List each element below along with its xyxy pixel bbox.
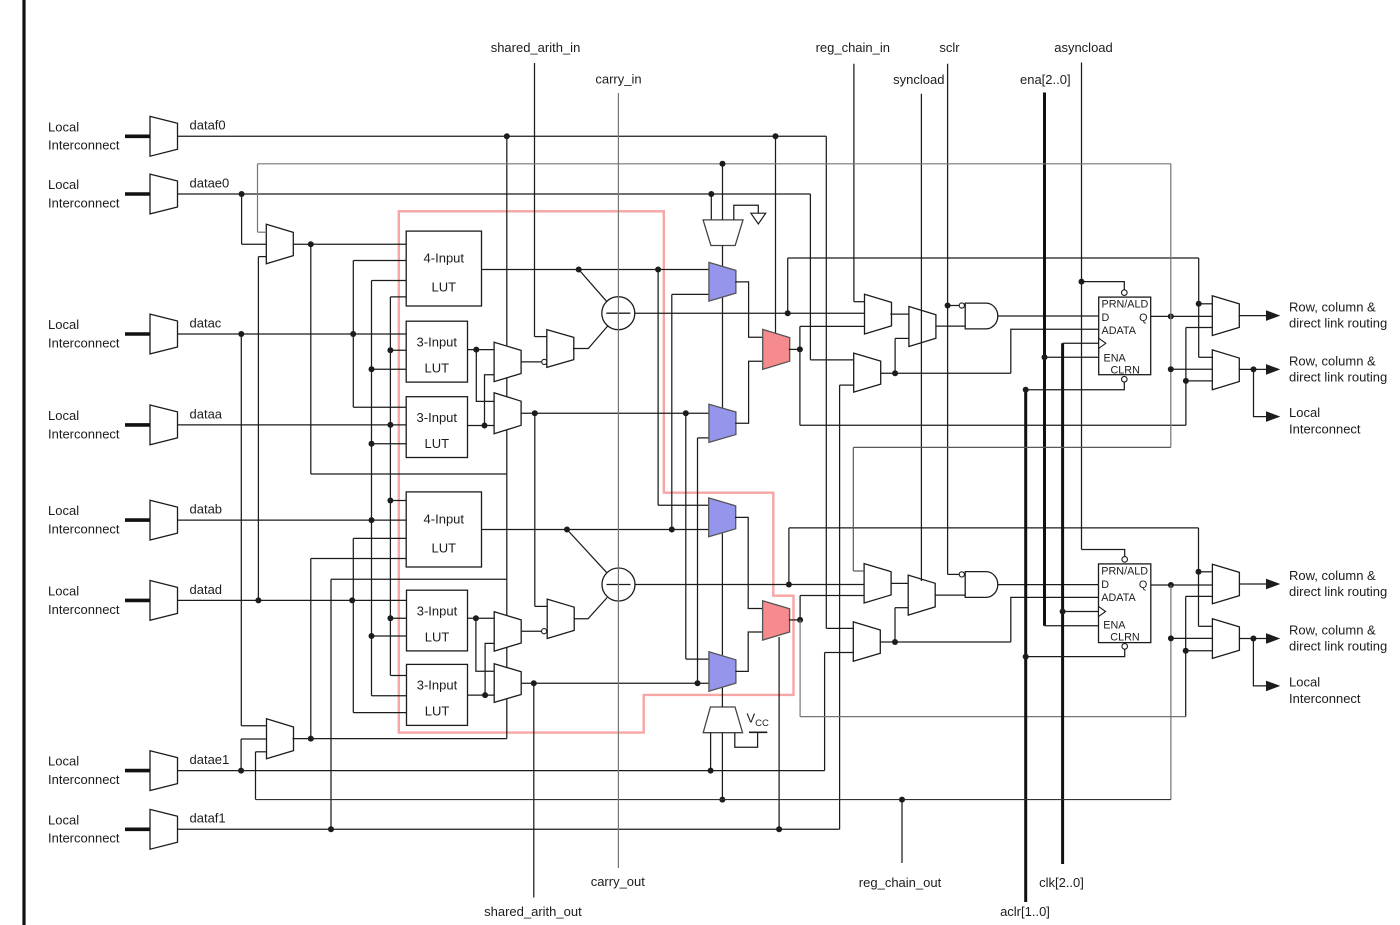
wire LUT input rail A upper	[352, 261, 354, 408]
node asyncload tap FF1	[1079, 279, 1085, 285]
wire adder1 out run to out muxes	[788, 257, 1199, 259]
FF1 PRN bubble	[1122, 290, 1128, 296]
wire out2 wire	[1239, 368, 1266, 370]
wire FF1 feedback left leg	[257, 164, 259, 232]
input buffer dataf1 (Local Interconnect)	[150, 809, 178, 849]
node red mux2 out junction	[797, 617, 803, 623]
input buffer datab (Local Interconnect)	[150, 500, 178, 540]
svg-text:Q: Q	[1139, 312, 1147, 324]
wire to out-mux3 in1	[1199, 571, 1213, 573]
mux datae0-select (top)	[266, 224, 293, 263]
svg-text:datab: datab	[190, 502, 223, 517]
wire datae1 up to mux I	[240, 739, 242, 771]
svg-text:Row, column &: Row, column &	[1289, 353, 1376, 368]
mux A (3-LUT combine, top)	[494, 342, 521, 381]
wire asyncload to FF2 PRN	[1082, 550, 1125, 557]
wire comb feedback rise (bottom)	[1185, 596, 1187, 716]
3-input LUT 3	[407, 590, 468, 651]
svg-text:clk[2..0]: clk[2..0]	[1039, 875, 1084, 890]
wire clk to FF2 clock	[1063, 611, 1099, 613]
svg-text:LUT: LUT	[432, 540, 457, 555]
node vcc pin / feedback junction	[719, 797, 725, 803]
svg-text:dataa: dataa	[190, 406, 223, 421]
wire rail A to 3-LUT4 in3	[353, 712, 406, 714]
node adder2 out tap	[786, 582, 792, 588]
wire feedback to e-select mux in2	[722, 164, 724, 220]
input buffer datae1 (Local Interconnect)	[150, 751, 178, 791]
bus aclr[1..0]	[1024, 390, 1027, 902]
wire FF1 Q output	[1151, 315, 1213, 317]
svg-text:LUT: LUT	[425, 704, 450, 719]
4-input LUT (bottom)	[406, 492, 481, 567]
adder 1 (top)	[602, 297, 635, 330]
svg-text:LUT: LUT	[425, 436, 450, 451]
wire FF1 feedback to mux F2	[852, 447, 854, 571]
wire dataf1	[178, 828, 840, 830]
wire carry chain carry_in to carry_out	[617, 93, 619, 868]
wire AND1 out to FF1 D	[998, 315, 1099, 317]
FF2 CLRN bubble	[1122, 644, 1128, 650]
arrow out2	[1266, 364, 1280, 375]
wire rail C to 4-LUT2 in1	[390, 500, 406, 502]
wire blue mux2 out to carry-select mux	[735, 361, 763, 423]
adder 2 (bottom)	[602, 568, 635, 601]
node ena tap FF1	[1042, 354, 1048, 360]
svg-text:direct link routing: direct link routing	[1289, 369, 1387, 384]
mux D2 (3-LUT combine, bottom)	[494, 612, 521, 651]
node Q1 feedback junction	[1168, 313, 1174, 319]
node datac tap	[238, 331, 244, 337]
wire 3-LUT3 output	[468, 617, 495, 619]
wire blue mux2 in2 stub	[698, 437, 709, 439]
wire ena to FF2 ENA	[1045, 625, 1099, 627]
wire lower select rail	[310, 559, 312, 739]
wire dataf0 to carry mux select	[775, 136, 777, 333]
wire FF2 feedback right leg	[1170, 585, 1172, 800]
wire to local interconnect arrow (bottom)	[1253, 639, 1266, 686]
node select mux out junction	[308, 241, 314, 247]
svg-text:4-Input: 4-Input	[424, 251, 465, 266]
svg-text:Interconnect: Interconnect	[1289, 691, 1361, 706]
svg-text:LUT: LUT	[425, 361, 450, 376]
wire dataf1 cross run	[331, 578, 507, 580]
4-input LUT (top)	[406, 231, 481, 306]
node 4LUT1 out / adder tap	[576, 267, 582, 273]
wire rail A to 4-LUT2 in3	[353, 537, 406, 539]
svg-text:asyncload: asyncload	[1054, 40, 1113, 55]
node 3LUT1 out tap	[473, 347, 479, 353]
svg-text:ENA: ENA	[1104, 353, 1127, 365]
wire red mux2 to sync mux stub	[799, 596, 801, 620]
wire out4 wire	[1239, 638, 1266, 640]
mux e-select (bottom, trapezoid up)	[703, 707, 742, 733]
node mux C2 out / cross tap	[695, 680, 701, 686]
wire clk to FF1 clock	[1063, 342, 1099, 344]
wire vcc mux pin to datae1	[710, 733, 712, 771]
node aclr end FF1	[1023, 387, 1029, 393]
svg-text:Interconnect: Interconnect	[48, 602, 120, 617]
svg-text:3-Input: 3-Input	[417, 678, 458, 693]
wire reg_chain_out line	[901, 800, 903, 863]
wire datad to top mux in3	[258, 256, 266, 258]
AND gate 1 (sclr gating, top)	[965, 303, 998, 329]
wire to inverter symbol	[734, 205, 759, 220]
svg-text:shared_arith_in: shared_arith_in	[491, 40, 581, 55]
wire to out-mux4 in1	[1199, 625, 1213, 627]
wire dataf0 vertical column	[506, 136, 508, 738]
wire to local interconnect arrow (top)	[1254, 369, 1267, 416]
node dataf1 tap	[328, 826, 334, 832]
wire select pass-through blue mux3 to mux4	[721, 533, 723, 655]
wire FF1 CLRN to aclr	[1026, 382, 1125, 390]
wire red mux1 out to sync mux F in3	[800, 325, 865, 327]
wire reg_chain_in to mux F in1	[854, 301, 865, 303]
node 3LUT2 out tap	[482, 423, 488, 429]
svg-text:Interconnect: Interconnect	[48, 831, 120, 846]
node out2 junction	[1251, 366, 1257, 372]
node 3LUT3 out tap	[473, 615, 479, 621]
wire comb feedback run (bottom)	[800, 716, 1186, 718]
wire datae0 to input-select mux	[241, 194, 243, 244]
wire mux F out to mux G	[890, 313, 909, 315]
wire to blue mux1 in2	[672, 293, 709, 295]
svg-text:ADATA: ADATA	[1102, 325, 1137, 337]
highlight outline (pink adder/LUT region)	[399, 211, 794, 732]
node red mux1 out junction	[797, 346, 803, 352]
wire mux A output	[521, 361, 541, 363]
wire dataf0 to reg-feedback mux H2 in1	[826, 627, 853, 629]
Vcc power symbol	[749, 731, 767, 733]
wire red mux2 output	[789, 619, 800, 621]
wire to out-mux3 in3	[1186, 595, 1213, 597]
svg-text:Q: Q	[1139, 579, 1147, 591]
svg-text:LUT: LUT	[432, 280, 457, 295]
wire dataf1 rise to LUT rail	[330, 579, 332, 829]
mux H (adata select, top)	[854, 353, 881, 392]
wire select-out cross connector	[311, 473, 507, 475]
node rail C tap dataa	[387, 422, 393, 428]
page left border	[22, 0, 25, 925]
wire FF1 feedback bottom run	[853, 446, 1171, 448]
wire LUT input rail A lower	[352, 538, 354, 712]
wire datac to 3-LUT1	[178, 333, 407, 335]
svg-text:carry_in: carry_in	[595, 71, 641, 86]
svg-text:ADATA: ADATA	[1101, 592, 1136, 604]
svg-text:Row, column &: Row, column &	[1289, 622, 1376, 637]
wire reg_chain_in drop	[853, 64, 855, 302]
wire datab to 4-LUT2	[178, 519, 407, 521]
input buffer dataf0 (Local Interconnect)	[150, 116, 178, 156]
node dataf1/select junction	[776, 826, 782, 832]
wire mux B out to adder 1	[573, 326, 608, 349]
wire mux I in3 drop	[255, 752, 257, 800]
wire rail B to 4-LUT1 in3	[372, 280, 407, 282]
wire comb feedback rise (top)	[1185, 328, 1187, 426]
node rail B tap 3LUT2	[369, 441, 375, 447]
wire adder2 out rise	[788, 528, 790, 585]
svg-text:Row, column &: Row, column &	[1289, 299, 1376, 314]
node feedback tap to e-select mux	[720, 161, 726, 167]
node mux H2 out tap	[892, 639, 898, 645]
svg-text:reg_chain_in: reg_chain_in	[816, 40, 890, 55]
bus ena[2..0]	[1043, 93, 1046, 626]
wire rail B to 3-LUT2 in3	[372, 443, 407, 445]
wire datae1 to mux I center input	[241, 738, 266, 740]
node feedback tap out-mux2	[1168, 366, 1174, 372]
svg-text:datac: datac	[190, 315, 222, 330]
wire 3LUT3 out jog to mux C2	[476, 618, 494, 671]
wire datac vertical to mux I	[240, 334, 242, 726]
AND1 input bubble	[959, 303, 964, 308]
wire ena to FF1 ENA	[1045, 356, 1099, 358]
wire 4LUT1 out cross to lower blue mux	[657, 270, 659, 506]
node dataf0/shared column tap	[504, 133, 510, 139]
wire to out-mux1 in3	[1186, 327, 1212, 329]
node feedback tap out-mux4	[1168, 635, 1174, 641]
wire datae0 mux center input	[242, 243, 267, 245]
node mux C out / cross tap	[683, 410, 689, 416]
3-input LUT 4	[407, 664, 468, 725]
svg-text:dataf0: dataf0	[190, 118, 226, 133]
svg-text:datad: datad	[190, 582, 223, 597]
wire datac to mux I in1	[241, 725, 266, 727]
wire rail B to 3-LUT3 in3	[372, 635, 407, 637]
node sclr tap AND1	[945, 303, 951, 309]
wire FF1 feedback top run	[258, 163, 1171, 165]
svg-text:3-Input: 3-Input	[417, 410, 458, 425]
node rail B tap 3LUT1	[369, 366, 375, 372]
wire to reg-feedback mux H in2	[840, 384, 854, 386]
wire dataa input stub (thick)	[125, 423, 150, 427]
svg-text:sclr: sclr	[939, 40, 960, 55]
wire out-mux feed drop (top)	[1198, 258, 1200, 357]
inverter bubble at mux B input	[542, 359, 547, 364]
wire red mux2 out to sync mux F2 in3	[800, 595, 864, 597]
wire to out-mux4 in3	[1186, 650, 1213, 652]
wire datae1 input stub (thick)	[125, 769, 150, 773]
mux datae1-select (bottom)	[267, 719, 294, 759]
wire 3LUT2 out jog to mux A	[485, 375, 495, 426]
FF1 clock triangle	[1099, 338, 1106, 348]
wire comb feedback run (top)	[800, 424, 1186, 426]
wire out3 wire	[1239, 583, 1266, 585]
mux out 2 (row/column, top)	[1212, 350, 1239, 390]
wire datab input stub (thick)	[125, 518, 150, 522]
node rail C tap 3LUT3	[387, 615, 393, 621]
wire out-mux feed drop (bottom)	[1198, 528, 1200, 626]
wire 3LUT1 out jog to mux C	[476, 350, 494, 402]
wire rail B to 3-LUT4 in2	[372, 695, 407, 697]
wire FF1 feedback right leg	[1170, 164, 1172, 448]
node Q2 feedback junction	[1168, 582, 1174, 588]
wire syncload line	[920, 94, 922, 581]
wire FF2 CLRN to aclr	[1026, 649, 1125, 657]
wire red mux2 loop vertical	[799, 620, 801, 717]
wire dataf1 feedback rise to mux H	[839, 385, 841, 829]
svg-text:aclr[1..0]: aclr[1..0]	[1000, 904, 1050, 919]
wire to blue mux3 in1	[658, 504, 709, 506]
node reg_chain_out tap	[899, 797, 905, 803]
wire shared_arith_in to mux B in1	[535, 336, 547, 338]
mux B (adder input, top)	[547, 330, 574, 368]
node out-mux3 feed tap	[1196, 569, 1202, 575]
wire rail C to 3-LUT4 in1	[390, 675, 406, 677]
svg-text:Local: Local	[48, 812, 79, 827]
wire 4-LUT1 output	[482, 269, 709, 271]
svg-text:ENA: ENA	[1103, 619, 1126, 631]
node dataf0/red-mux select tap	[773, 133, 779, 139]
wire adder2 out run to out muxes	[789, 527, 1199, 529]
wire AND2 out to FF2 D	[998, 584, 1099, 586]
FF1 CLRN bubble	[1122, 376, 1128, 382]
svg-text:Interconnect: Interconnect	[48, 426, 120, 441]
wire feedback to top mux in1	[258, 231, 267, 233]
wire mux H output run	[881, 372, 1011, 374]
wire to blue mux4 in1	[686, 658, 709, 660]
wire mux C2 output run	[522, 682, 709, 684]
wire dataf0 feedback drop	[825, 136, 827, 628]
inverter bubble at mux E2 input	[542, 629, 547, 634]
node aclr tap FF2	[1023, 654, 1029, 660]
svg-text:D: D	[1102, 312, 1110, 324]
wire datae1	[178, 770, 825, 772]
wire red mux1 output	[789, 348, 800, 350]
node comb feedback tap	[1183, 378, 1189, 384]
wire datae0 feedback drop	[809, 194, 811, 360]
svg-text:Interconnect: Interconnect	[48, 772, 120, 787]
wire mux C2 out cross to blue mux2	[697, 438, 699, 683]
node 3LUT4 out tap	[482, 692, 488, 698]
input buffer datae0 (Local Interconnect)	[150, 174, 178, 214]
inverter triangle symbol	[751, 213, 766, 224]
wire mux G out to AND gate	[936, 325, 965, 327]
wire out1 wire	[1239, 315, 1266, 317]
mux blue 4 (bottom LUT select)	[709, 652, 736, 692]
wire mux F2 out to mux G2	[891, 582, 909, 584]
wire FF2 Q output	[1151, 584, 1213, 586]
node datad/railA junction	[349, 597, 355, 603]
wire mux C output run	[521, 412, 709, 414]
node mux H out tap	[892, 370, 898, 376]
node rail B tap 3LUT3	[369, 633, 375, 639]
wire mux H out rise to mux G	[894, 338, 896, 373]
node datae1 tap	[238, 768, 244, 774]
svg-text:dataf1: dataf1	[190, 811, 226, 826]
input buffer datad (Local Interconnect)	[150, 581, 178, 621]
wire LUT input rail C	[389, 297, 391, 676]
svg-text:4-Input: 4-Input	[424, 511, 465, 526]
wire dataf0 input stub (thick)	[125, 135, 150, 139]
svg-text:Local: Local	[48, 408, 79, 423]
wire mux H2 out rise to mux G2	[894, 608, 896, 642]
wire e-select mux out to blue mux1	[722, 246, 724, 267]
AND gate 2 (sclr gating, bottom)	[965, 572, 998, 598]
node 4LUT2 out / cross tap	[669, 527, 675, 533]
node rail C tap 3LUT1	[387, 347, 393, 353]
svg-text:CLRN: CLRN	[1110, 631, 1139, 643]
wire to FF2 ADATA	[1011, 597, 1099, 642]
mux blue 2 (top LUT select)	[709, 404, 736, 442]
node rail C tap 4LUT2	[387, 498, 393, 504]
wire datad to 3-LUT3	[178, 599, 407, 601]
svg-text:D: D	[1101, 579, 1109, 591]
wire select-out vertical rail	[310, 244, 312, 474]
FF2 PRN bubble	[1122, 557, 1128, 563]
wire to out-mux4 in2	[1171, 637, 1213, 639]
wire to mux G in2	[895, 337, 909, 339]
wire 4LUT1 out to adder 1	[579, 270, 607, 302]
wire datae0 input stub (thick)	[125, 192, 150, 196]
svg-text:PRN/ALD: PRN/ALD	[1102, 299, 1149, 311]
wire rail A to 3-LUT2 in1	[353, 406, 406, 408]
wire rail B to 3-LUT1 in3	[372, 368, 407, 370]
wire vcc mux out to blue mux4	[721, 688, 723, 707]
wire 3LUT4 out jog to mux D2	[485, 643, 494, 695]
mux H2 (adata select, bottom)	[853, 622, 880, 661]
node 4LUT2 out / adder tap	[564, 527, 570, 533]
wire datac input stub (thick)	[125, 332, 150, 336]
svg-text:3-Input: 3-Input	[417, 335, 458, 350]
wire LUT input rail B	[371, 281, 373, 696]
wire blue mux1 out to carry-select mux	[735, 282, 763, 337]
node datae1/vcc mux tap	[708, 768, 714, 774]
wire datad vertical to top mux	[257, 257, 259, 601]
mux out 1 (row/column, top)	[1212, 296, 1239, 336]
svg-text:direct link routing: direct link routing	[1289, 638, 1387, 653]
svg-text:Local: Local	[48, 583, 79, 598]
wire datad input stub (thick)	[125, 599, 150, 603]
wire shared_arith_in drop	[534, 63, 536, 337]
wire 3-LUT1 output	[468, 349, 495, 351]
mux C (shared arith out, top)	[494, 393, 521, 434]
svg-text:CLRN: CLRN	[1111, 365, 1140, 377]
mux e-select (top, trapezoid down)	[703, 220, 743, 246]
wire to out-mux2 in2	[1171, 368, 1213, 370]
mux red (output select, bottom)	[763, 601, 790, 640]
wire asyncload to FF1 PRN	[1082, 282, 1125, 290]
svg-text:PRN/ALD: PRN/ALD	[1101, 565, 1148, 577]
input buffer dataa (Local Interconnect)	[150, 405, 178, 445]
wire to mux F2 in1	[853, 570, 864, 572]
wire 3-LUT4 output	[468, 694, 495, 696]
svg-text:direct link routing: direct link routing	[1289, 315, 1387, 330]
wire 4LUT2 out cross to upper blue mux	[671, 294, 673, 529]
svg-text:reg_chain_out: reg_chain_out	[859, 875, 942, 890]
wire 4-LUT2 output	[482, 529, 709, 531]
node clk tap FF2	[1060, 609, 1066, 615]
AND2 input bubble	[959, 572, 964, 577]
wire mux D2 output	[522, 630, 541, 632]
svg-text:3-Input: 3-Input	[417, 604, 458, 619]
svg-text:Interconnect: Interconnect	[48, 522, 120, 537]
arrow out1	[1266, 310, 1280, 321]
mux G2 (sync load select, bottom)	[908, 575, 935, 615]
flip-flop FF1	[1099, 297, 1151, 375]
node mux I output junction	[308, 736, 314, 742]
wire datae0	[178, 193, 811, 195]
wire dataf1 to carry mux2 select	[778, 637, 780, 829]
wire 3-LUT2 output	[468, 425, 495, 427]
wire rail C to 3-LUT1 in2	[390, 349, 406, 351]
svg-text:syncload: syncload	[893, 72, 944, 87]
mux out 4 (row/column, bottom)	[1212, 619, 1239, 659]
svg-text:datae0: datae0	[190, 175, 230, 190]
mux C2 (shared arith out, bottom)	[494, 664, 521, 703]
wire mux I output run	[293, 738, 507, 740]
wire adder1 out rise	[787, 258, 789, 313]
svg-text:Local: Local	[48, 119, 79, 134]
wire rail A to 4-LUT1 in2	[353, 260, 406, 262]
